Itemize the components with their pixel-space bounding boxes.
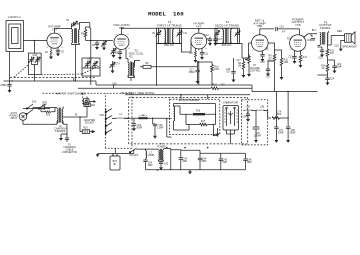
gang capacitor C5 box (82, 58, 100, 76)
capacitor C37 (274, 92, 284, 143)
capacitor C8 below V2 (118, 49, 122, 60)
economiser outer dashed box (129, 97, 248, 143)
capacitor C46 (243, 153, 252, 170)
svg-text:4: 4 (115, 34, 116, 36)
svg-text:RED: RED (337, 31, 342, 33)
resistor R14 B+ dropping (321, 60, 329, 75)
capacitor C34 (242, 111, 250, 122)
resistor R6 series (135, 61, 198, 69)
svg-text:FIRST I-F TRANS: FIRST I-F TRANS (157, 23, 181, 27)
capacitor C20 across primary (307, 34, 315, 43)
resistor R20 (272, 111, 288, 119)
svg-text:R22: R22 (91, 105, 96, 107)
svg-text:C24: C24 (330, 79, 335, 81)
capacitor C17 (266, 66, 271, 79)
tube V4 DET and A-F AMP 7B6 (251, 19, 268, 52)
choke L3 (134, 115, 172, 119)
svg-text:8: 8 (128, 48, 129, 50)
wire B-supply to economiser (181, 95, 208, 100)
svg-text:C13: C13 (217, 39, 222, 41)
svg-text:L5B: L5B (260, 107, 265, 109)
resistor R17 (200, 123, 208, 126)
svg-text:6: 6 (265, 36, 266, 38)
svg-text:C17: C17 (266, 77, 271, 79)
svg-text:6: 6 (127, 34, 128, 36)
svg-text:WAFER SWITCH(ES): WAFER SWITCH(ES) (56, 91, 86, 95)
wire T4 to detector (240, 44, 243, 59)
secondary return and voice-coil (334, 41, 344, 52)
switch S2 on-off (129, 148, 141, 157)
svg-text:4: 4 (49, 33, 50, 35)
svg-text:BLU: BLU (312, 30, 317, 32)
svg-text:8MF: 8MF (247, 162, 252, 164)
trimmer C7 below V2 (111, 48, 117, 58)
svg-text:C12: C12 (204, 35, 209, 37)
svg-text:30MF: 30MF (278, 133, 285, 135)
svg-text:C17: C17 (236, 60, 241, 62)
AVC resistor R14B 470K (198, 62, 220, 85)
wire loop to V1 grid (24, 40, 47, 42)
node ticks on bus (74, 58, 96, 85)
adapter socket X1 (84, 119, 95, 125)
ground battery (96, 154, 100, 158)
cathode resistor R12 (299, 51, 308, 68)
svg-text:R12: R12 (303, 57, 308, 59)
svg-text:L5A: L5A (246, 106, 251, 109)
svg-text:7: 7 (304, 49, 305, 51)
svg-text:8MF: 8MF (182, 161, 187, 163)
junction arrows lower right (214, 125, 218, 137)
svg-text:3: 3 (289, 49, 290, 51)
adapter socket wire (63, 117, 87, 132)
switch S1 blade (26, 108, 33, 115)
svg-text:10MF: 10MF (336, 67, 343, 69)
svg-text:ON-OFF: ON-OFF (130, 155, 140, 157)
tube V2 OSC-CONV 7B8 (113, 23, 130, 49)
choke L4 (112, 114, 129, 119)
capacitor C43 (179, 150, 188, 170)
svg-text:CONTROL: CONTROL (249, 71, 261, 73)
svg-text:R25: R25 (46, 115, 51, 117)
resistor R10 (280, 55, 289, 80)
resistor R25 (41, 108, 55, 117)
capacitor C40 (143, 160, 153, 170)
svg-text:30MF: 30MF (290, 133, 297, 135)
phono jack ground return (23, 120, 57, 124)
loop antenna L1 (6, 15, 24, 52)
wire gang C1 to bus (34, 75, 36, 82)
filter output wire (268, 117, 271, 119)
rectifier feed wires (164, 149, 246, 170)
tube V3 I-F AMP 7A7 (191, 22, 207, 49)
economiser inner dashed box (170, 99, 220, 134)
svg-text:6: 6 (303, 36, 304, 38)
svg-text:2.2K: 2.2K (220, 84, 225, 86)
svg-text:10M: 10M (284, 62, 289, 64)
wire V3 plate to bus and T4 (182, 29, 218, 34)
AVC dashed line (10, 77, 95, 79)
economiser inner network (174, 104, 220, 137)
svg-text:CONNECTOR: CONNECTOR (62, 152, 77, 154)
capacitor C35 (253, 111, 262, 143)
svg-text:S1A: S1A (112, 82, 117, 85)
svg-text:R11: R11 (287, 39, 292, 41)
svg-text:1M: 1M (238, 66, 241, 68)
choke L5A (244, 106, 257, 111)
svg-text:GD: GD (226, 71, 230, 73)
capacitor C42 (159, 162, 169, 170)
V3 cathode resistor R8 (190, 48, 198, 63)
wire T3 left to bus (156, 44, 158, 86)
svg-text:C19: C19 (279, 27, 284, 29)
V4 plate wire to R9 (268, 43, 282, 66)
resistor R2 right of L2 (81, 27, 87, 41)
svg-text:8MF: 8MF (222, 162, 227, 164)
wire T3 sec to V3 grid (182, 41, 192, 52)
capacitor C38 (286, 92, 296, 143)
tube V5 POWER OUTPUT 7C5 (290, 17, 306, 51)
svg-text:SPEAKER: SPEAKER (342, 45, 357, 49)
capacitor C24A series (33, 102, 55, 110)
svg-text:3: 3 (112, 48, 113, 50)
capacitor C28 (152, 118, 164, 139)
V3 screen to bus (198, 49, 200, 85)
capacitor C26 (132, 118, 143, 131)
capacitor C45 (219, 153, 228, 170)
svg-text:470K: 470K (214, 69, 220, 71)
wire V1 plate to top bus (55, 29, 72, 34)
capacitor C3 below V1 (56, 48, 65, 56)
wire L2/R2 to bus (76, 23, 91, 81)
wire grid line to V2 (91, 40, 113, 42)
svg-text:C20: C20 (307, 40, 312, 42)
svg-text:MODEL 160: MODEL 160 (148, 11, 184, 18)
svg-text:5: 5 (59, 33, 60, 35)
svg-text:R20: R20 (277, 114, 282, 116)
svg-text:C11: C11 (204, 54, 209, 56)
resistor R22 adapter (84, 97, 96, 118)
svg-text:VOLUME: VOLUME (250, 68, 260, 70)
svg-text:R23: R23 (83, 127, 88, 129)
resistor R9 plate load (267, 50, 275, 92)
capacitor C23 (328, 60, 343, 73)
choke L5B (256, 107, 268, 119)
svg-text:C25: C25 (334, 46, 339, 48)
switch S1B bank (99, 109, 112, 136)
svg-text:100MF: 100MF (254, 136, 262, 138)
svg-text:1.0MF: 1.0MF (157, 127, 164, 129)
volume control R7 (246, 54, 262, 77)
svg-text:C22: C22 (318, 58, 323, 60)
svg-text:5: 5 (203, 34, 204, 36)
hash choke L7 (141, 149, 155, 160)
capacitor C4 to ground (0, 81, 12, 93)
capacitor C4a on grid line (92, 41, 99, 50)
svg-text:S1B: S1B (99, 115, 104, 117)
svg-text:R17: R17 (201, 121, 206, 123)
antenna coil L2 (72, 28, 80, 44)
svg-text:2.7K: 2.7K (277, 111, 282, 113)
svg-text:VIBRATOR: VIBRATOR (223, 100, 239, 104)
svg-text:SECD I-F TRANS: SECD I-F TRANS (215, 23, 239, 27)
trimmer C4b (101, 41, 107, 51)
V3 cathode cap C11 (200, 48, 209, 60)
svg-text:C5A: C5A (87, 59, 92, 62)
svg-text:OSC.COIL: OSC.COIL (129, 51, 144, 55)
cathode network C21 below V5 (288, 51, 296, 64)
svg-text:ECONOMIZER: ECONOMIZER (179, 98, 200, 102)
svg-text:C4 .05MF: C4 .05MF (0, 85, 7, 87)
resistor R16 bar (193, 113, 205, 115)
AVC filter capacitor C17B (188, 67, 200, 84)
diode load resistor R4 (238, 58, 246, 78)
bus B-supply (125, 94, 250, 96)
power return wire (146, 169, 246, 171)
dial lamp I1 (84, 99, 96, 105)
coupling capacitor C19 (276, 27, 300, 35)
wafer switch dashed lead (43, 92, 61, 94)
svg-text:6: 6 (205, 48, 206, 50)
svg-text:R16: R16 (196, 111, 201, 113)
bus screen (78, 85, 252, 88)
B-plus wire right (250, 88, 318, 95)
ground power row (188, 170, 192, 175)
svg-text:1K: 1K (322, 68, 325, 70)
capacitor C13 (213, 37, 222, 46)
wire V2 cathode down (125, 49, 127, 59)
svg-text:BAT.: BAT. (113, 160, 118, 163)
capacitor C12 right of V3 (207, 37, 213, 46)
charging cable connector P1 (59, 124, 77, 154)
IF transformer T4 (214, 20, 240, 47)
svg-text:C21: C21 (288, 57, 293, 59)
capacitor C44 (198, 153, 207, 170)
svg-text:C7A: C7A (115, 63, 120, 66)
svg-text:7C5: 7C5 (295, 23, 301, 27)
resistor R15 in screen bus (211, 84, 225, 89)
capacitor C18 (260, 51, 265, 64)
choke L9 vertical (174, 107, 175, 121)
tube V1 R-F AMP 7A7 (47, 25, 62, 49)
resistor R18 series (126, 118, 135, 119)
wire V4 plate to C19 (260, 29, 274, 35)
oscillator coil T2 (126, 49, 144, 81)
svg-text:4: 4 (253, 36, 254, 38)
svg-text:4: 4 (291, 36, 292, 38)
phono input jack J1 (10, 112, 27, 120)
speaker LS1 (342, 32, 357, 49)
filter dashed box right (242, 100, 268, 145)
battery B1 (110, 148, 120, 170)
ganging dashed line (14, 65, 29, 77)
svg-text:.5MF: .5MF (147, 165, 153, 167)
wire to inner box (167, 118, 172, 137)
svg-text:3: 3 (251, 50, 252, 52)
cathode resistor R1 below V1 (45, 48, 53, 59)
battery feed wire (98, 149, 134, 153)
vibrator G1 (223, 100, 239, 144)
bus AVC-2 (96, 84, 252, 86)
wire V5 plate to T6 (304, 34, 317, 38)
bus B-minus left (4, 80, 97, 82)
svg-text:C18: C18 (260, 62, 265, 64)
IF transformer T3 (156, 20, 183, 47)
tube pin numbers (46, 33, 305, 52)
wire loop bottom to bus (9, 52, 11, 82)
power transformer T7 (146, 144, 167, 162)
svg-text:7: 7 (266, 50, 267, 52)
wire V2 plate to bus and T3 (122, 28, 158, 34)
svg-text:7A7: 7A7 (196, 25, 202, 29)
svg-text:4.5MH: 4.5MH (147, 155, 154, 157)
svg-text:C42: C42 (164, 164, 169, 166)
svg-text:.05MF: .05MF (188, 72, 195, 74)
tone capacitor C22 (317, 47, 324, 60)
svg-text:7B6: 7B6 (257, 24, 263, 28)
svg-text:LOOP L1: LOOP L1 (8, 15, 21, 19)
resistor R23 adapter (80, 127, 96, 133)
svg-text:C34: C34 (242, 117, 247, 119)
svg-text:A-F: A-F (282, 31, 286, 34)
svg-text:TRANS.: TRANS. (55, 129, 66, 133)
svg-text:C10: C10 (183, 33, 188, 35)
svg-text:S1A: S1A (32, 101, 37, 104)
svg-text:R15: R15 (212, 84, 217, 86)
svg-text:SOCKET: SOCKET (85, 123, 95, 125)
svg-text:3: 3 (190, 48, 191, 50)
capacitor C16B (226, 58, 236, 82)
wire grid to gang C1 (34, 41, 36, 54)
svg-text:.05MF: .05MF (136, 127, 143, 129)
switch S1A contacts (23, 101, 50, 110)
svg-text:4: 4 (193, 34, 194, 36)
svg-text:TRANS.: TRANS. (320, 26, 331, 30)
svg-text:INPUT: INPUT (10, 118, 18, 120)
svg-text:8MF: 8MF (202, 161, 207, 163)
gang capacitor C1 box (28, 53, 41, 74)
svg-text:1MF: 1MF (42, 105, 47, 107)
antenna trimmer C5 (66, 20, 90, 30)
V4 grid lead (242, 43, 252, 58)
capacitor C24 (317, 75, 334, 85)
svg-text:3: 3 (46, 47, 47, 49)
output transformer T6 (312, 20, 345, 45)
charging transformer L6 (54, 107, 67, 133)
feedback resistor R13 (326, 45, 334, 61)
svg-text:6: 6 (61, 47, 62, 49)
trimmer C7A (110, 61, 121, 73)
